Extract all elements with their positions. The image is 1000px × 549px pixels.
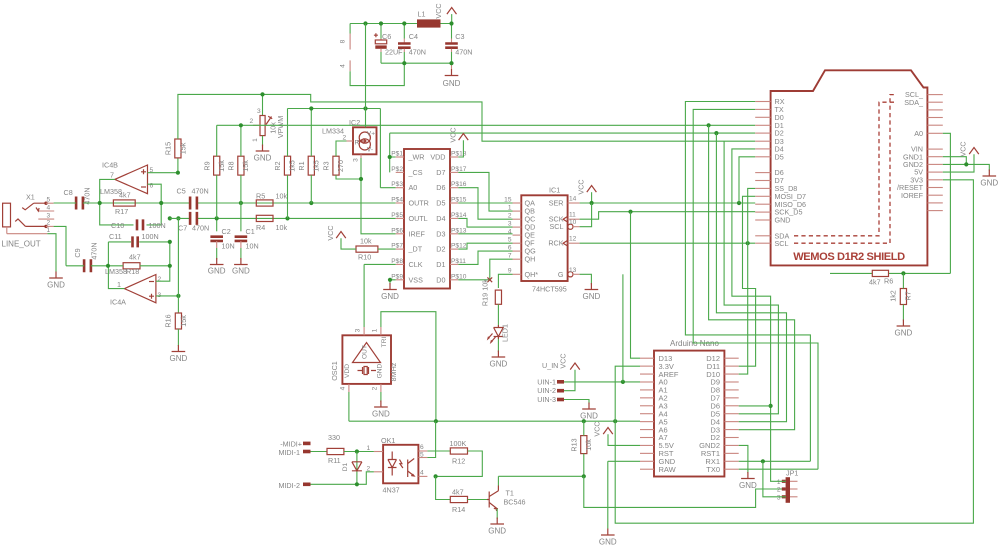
svg-text:GND: GND <box>376 363 383 378</box>
svg-text:OSC1: OSC1 <box>330 361 339 381</box>
svg-text:2: 2 <box>777 487 781 494</box>
wire RX1 to JP1 pin3 <box>763 461 786 497</box>
svg-text:IC4B: IC4B <box>102 161 118 170</box>
op-amp IC4A LM358 <box>124 275 155 303</box>
svg-text:4N37: 4N37 <box>383 486 400 495</box>
wire L-channel line <box>170 217 396 219</box>
Nano pin D7 <box>724 397 738 399</box>
wire R19 to LED1 <box>497 304 499 325</box>
wire D4 riser to JP1 pin1 <box>732 149 786 481</box>
junction x marker <box>487 277 492 282</box>
Nano pin RST1 <box>724 452 738 454</box>
wire R3 to LM334 <box>336 141 396 234</box>
wire SCK line to WEMOS <box>580 212 756 220</box>
svg-text:GND: GND <box>580 412 598 421</box>
svg-text:470N: 470N <box>192 224 209 233</box>
svg-text:100N: 100N <box>149 221 166 230</box>
wire R2 risers <box>287 109 289 219</box>
OSC1 pin 3 <box>363 327 365 335</box>
wire SS_D8 riser to Nano D10 <box>739 188 756 374</box>
WEMOS pin GND2 <box>927 163 942 165</box>
svg-text:A0: A0 <box>409 183 418 192</box>
svg-text:LINE_OUT: LINE_OUT <box>2 240 41 249</box>
svg-text:1: 1 <box>117 280 121 289</box>
wire IC4A output <box>108 266 124 289</box>
wire IC4A -in <box>156 266 170 281</box>
IC1 pin 1 QB <box>513 210 522 212</box>
svg-text:_DT: _DT <box>408 245 423 254</box>
wire 5V to VCC <box>943 154 974 172</box>
JP1 pin 1 <box>790 480 798 482</box>
svg-text:R15: R15 <box>164 142 173 155</box>
pin 4 LM358 power stub <box>349 60 351 71</box>
svg-text:470N: 470N <box>83 187 92 204</box>
WEMOS pin SDA_ <box>927 101 942 103</box>
IC2 pin P$17 D7 <box>450 171 458 173</box>
svg-text:4: 4 <box>508 229 512 236</box>
svg-text:10: 10 <box>569 219 577 226</box>
OSC1 pin 2 <box>380 384 382 392</box>
Nano pin A6 <box>640 429 654 431</box>
svg-text:10k: 10k <box>584 439 593 451</box>
svg-text:6: 6 <box>150 183 154 190</box>
svg-text:QH: QH <box>525 255 536 264</box>
IC1 pin 12 RCK <box>563 240 568 246</box>
wire D3 riser to Nano D5 <box>724 141 778 414</box>
power VCC at R10 <box>336 232 346 239</box>
svg-text:GND: GND <box>381 292 399 301</box>
wire gnd rail under caps <box>381 62 452 64</box>
svg-text:VDD: VDD <box>344 364 351 378</box>
WEMOS pin 5V <box>927 171 942 173</box>
resistor R6 4k7 <box>872 270 888 276</box>
wire UIN-2 to VCC <box>564 370 575 391</box>
svg-text:VCC: VCC <box>593 421 602 436</box>
svg-text:10k: 10k <box>276 223 288 232</box>
wire UIN-1 to Nano A0 <box>564 381 640 383</box>
wire IC2 to IC1 QA <box>458 202 512 204</box>
wire T1 emitter to ground <box>496 509 498 519</box>
junction dots power rail <box>363 21 367 25</box>
capacitor C10 100N <box>100 203 162 225</box>
svg-text:D1: D1 <box>342 462 349 471</box>
X1 pin 3 <box>38 218 54 220</box>
ground UIN-3 <box>582 403 596 410</box>
svg-text:P$6: P$6 <box>391 227 403 234</box>
svg-text:470N: 470N <box>455 47 472 56</box>
wire R15 to _WR net line <box>178 94 755 141</box>
IC1 pin 13 G <box>568 272 573 277</box>
svg-text:X1: X1 <box>26 193 35 202</box>
svg-text:TRI: TRI <box>381 337 388 348</box>
resistor R19 10k <box>495 290 501 304</box>
svg-text:D4: D4 <box>436 214 445 223</box>
svg-text:5: 5 <box>420 452 424 459</box>
inductor L1 <box>417 19 441 27</box>
wire CS D2 line <box>390 133 756 172</box>
resistor R1 1k5 <box>308 156 314 175</box>
ground Nano GND <box>601 529 615 536</box>
svg-text:15k: 15k <box>217 160 226 172</box>
capacitor C3 470N <box>451 24 453 39</box>
WEMOS pin D5 <box>755 156 770 158</box>
svg-text:R7: R7 <box>904 291 913 300</box>
svg-text:3: 3 <box>257 108 261 115</box>
svg-text:TX0: TX0 <box>706 465 720 474</box>
IC1 pin 2 QC <box>513 218 522 220</box>
svg-text:P$3: P$3 <box>391 181 403 188</box>
svg-text:BC546: BC546 <box>504 498 526 507</box>
wire divider riser to R16 <box>177 218 179 313</box>
IC2 pin P$3 A0 <box>396 187 404 189</box>
capacitor C8 470N <box>76 197 83 210</box>
svg-text:3: 3 <box>355 328 362 332</box>
resistor R17 4k7 <box>113 200 135 206</box>
IC2 pin P$2 _CS <box>396 171 404 173</box>
svg-text:470N: 470N <box>192 187 209 196</box>
wire VCC A0 line <box>288 109 396 188</box>
resistor R16 15k <box>175 313 181 329</box>
svg-text:2: 2 <box>158 276 162 283</box>
WEMOS pin SCL <box>755 242 770 244</box>
Nano pin D13 <box>640 357 654 359</box>
svg-text:4k7: 4k7 <box>129 253 141 262</box>
Nano pin A2 <box>640 397 654 399</box>
ground C1 <box>234 258 248 265</box>
svg-text:RAW: RAW <box>659 465 677 474</box>
connector X1 jack <box>3 203 11 227</box>
wire IC4B output <box>100 179 115 203</box>
capacitor C1 10N <box>240 203 242 231</box>
svg-text:P$4: P$4 <box>391 197 403 204</box>
Nano pin A4 <box>640 413 654 415</box>
svg-text:100K: 100K <box>450 439 467 448</box>
svg-text:GND: GND <box>775 216 791 225</box>
IC1 pin 6 QG <box>513 250 522 252</box>
wire SCL tied to VCC <box>580 203 592 227</box>
svg-text:VPWM: VPWM <box>276 116 285 138</box>
svg-text:QH*: QH* <box>525 270 539 279</box>
svg-text:SCL: SCL <box>550 222 564 231</box>
wire T1 collector <box>497 476 499 485</box>
svg-text:IOREF: IOREF <box>901 191 924 200</box>
wire A0 riser <box>622 274 624 382</box>
wire VSS to ground <box>390 280 396 285</box>
IC2 pin P$18 VDD <box>450 156 458 158</box>
svg-text:A0: A0 <box>914 129 923 138</box>
power VCC at Nano 5.5V <box>603 428 613 435</box>
svg-text:2: 2 <box>343 135 347 142</box>
dashed SCL internal route <box>794 95 896 244</box>
svg-text:GND: GND <box>372 410 390 419</box>
power VCC at UIN <box>570 363 580 370</box>
WEMOS pin nc <box>927 109 942 111</box>
OK1 pin 1 <box>374 451 383 453</box>
wire TX0 row <box>739 468 818 470</box>
WEMOS pin MISO_D6 <box>755 203 770 205</box>
svg-text:D5: D5 <box>775 152 784 161</box>
IC2 pin P$1 _WR <box>396 156 404 158</box>
WEMOS pin SDA <box>755 235 770 237</box>
svg-text:VCC: VCC <box>434 3 443 18</box>
ground R7 <box>897 320 911 327</box>
svg-text:470N: 470N <box>90 242 99 259</box>
wire IC4B -in <box>148 184 162 203</box>
svg-text:R16: R16 <box>164 314 173 327</box>
WEMOS pin D3 <box>755 140 770 142</box>
svg-text:4: 4 <box>340 64 347 68</box>
svg-text:D7: D7 <box>436 168 445 177</box>
svg-text:1: 1 <box>777 479 781 486</box>
svg-text:SDA_: SDA_ <box>904 98 924 107</box>
svg-text:UIN-2: UIN-2 <box>537 386 556 395</box>
WEMOS pin 3V3 <box>927 179 942 181</box>
svg-text:4k7: 4k7 <box>869 278 881 287</box>
WEMOS pin D1 <box>755 124 770 126</box>
WEMOS pin RX <box>755 101 770 103</box>
IC1 pin 5 QF <box>513 242 522 244</box>
IC2 pin P$4 OUTR <box>396 202 404 204</box>
IC2 pin P$14 D4 <box>450 217 458 219</box>
wire UIN-3 to ground <box>564 400 589 405</box>
svg-text:VCC: VCC <box>449 127 458 142</box>
IC wemos d1r2 shield outline <box>771 70 928 265</box>
IC2 pin P$16 D6 <box>450 187 458 189</box>
current source IC2 LM334 <box>353 127 377 154</box>
wire 3V3 rail <box>349 420 640 422</box>
OK1 pin 2 <box>374 471 383 473</box>
IC2 pin P$9 VSS <box>396 279 404 281</box>
wire RX1 row <box>739 460 811 462</box>
svg-text:1k2: 1k2 <box>889 290 898 302</box>
wire GND1 GND2 to ground <box>943 157 990 171</box>
capacitor C5 470N <box>190 197 197 210</box>
svg-text:VCC: VCC <box>577 179 586 194</box>
svg-text:10k: 10k <box>481 279 490 291</box>
svg-text:2: 2 <box>372 386 379 390</box>
Nano pin A3 <box>640 405 654 407</box>
Nano pin D11 <box>724 365 738 367</box>
ground IC1 <box>585 283 599 290</box>
Nano pin D8 <box>724 389 738 391</box>
Nano pin D5 <box>724 413 738 415</box>
svg-text:D0: D0 <box>436 275 445 284</box>
svg-text:OUT: OUT <box>362 345 369 359</box>
X1 pin 5 tip switch <box>22 203 46 210</box>
wire Nano GND to ground <box>608 461 640 528</box>
svg-text:GND: GND <box>490 360 508 369</box>
wire R-channel line <box>54 202 396 204</box>
wire R13 bottom to JP1 pin2 <box>584 476 786 507</box>
WEMOS pin MOSI_D7 <box>755 195 770 197</box>
svg-text:C4: C4 <box>409 32 418 41</box>
svg-text:C5: C5 <box>177 187 186 196</box>
wire A0 to R6 <box>943 133 951 273</box>
wire IC4A +in <box>156 295 179 297</box>
oscillator OSC1 8MHz box <box>342 335 391 384</box>
svg-text:V+: V+ <box>367 131 375 138</box>
svg-text:GND: GND <box>895 329 913 338</box>
svg-text:GND: GND <box>443 79 461 88</box>
junction dots R line <box>98 201 102 205</box>
svg-text:VDD: VDD <box>430 153 445 162</box>
wire VCC to 5.5V <box>608 434 640 445</box>
svg-text:1: 1 <box>367 445 371 452</box>
resistor R18 4k7 <box>123 263 140 269</box>
svg-text:1k5: 1k5 <box>288 160 297 172</box>
svg-text:OUTL: OUTL <box>409 214 428 223</box>
svg-text:GND: GND <box>254 154 272 163</box>
OK1 pin 6 <box>418 450 427 452</box>
svg-text:R: R <box>355 140 360 147</box>
svg-text:R4: R4 <box>256 223 265 232</box>
wire IC1 G to ground <box>580 274 592 284</box>
capacitor C9 470N <box>84 259 91 272</box>
svg-text:4: 4 <box>420 470 424 477</box>
power VCC at IC1 <box>587 186 597 193</box>
Nano pin RX1 <box>724 460 738 462</box>
svg-text:2: 2 <box>250 118 254 125</box>
svg-text:1: 1 <box>372 328 379 332</box>
svg-text:2: 2 <box>47 220 51 227</box>
wire WEMOS D5 to MISO line <box>739 157 755 203</box>
IC2 pin P$8 CLK <box>396 263 404 265</box>
svg-text:D5: D5 <box>436 199 445 208</box>
resistor R14 4k7 <box>450 496 467 502</box>
svg-text:470N: 470N <box>409 47 426 56</box>
Nano pin TX0 <box>724 468 738 470</box>
wire trimmer pin1 to ground <box>262 136 264 146</box>
X1 pin 4 <box>38 210 54 212</box>
resistor R12 100K <box>450 448 467 454</box>
Nano pin A0 <box>640 381 654 383</box>
pin stub LM334 pin2 <box>347 140 354 142</box>
svg-text:GND: GND <box>583 292 601 301</box>
svg-text:4: 4 <box>47 204 51 211</box>
svg-text:D3: D3 <box>436 229 445 238</box>
svg-text:3: 3 <box>353 158 360 162</box>
svg-text:_WR: _WR <box>408 153 425 162</box>
wire IC2 D2 to QG <box>458 251 512 264</box>
svg-text:L1: L1 <box>418 10 426 19</box>
wire Nano GND2 to ground <box>739 445 748 473</box>
IC2 pin P$15 D5 <box>450 202 458 204</box>
IC2 pin P$13 D3 <box>450 233 458 235</box>
wire Nano D13 to SCK line <box>631 212 641 359</box>
WEMOS pin /RESET <box>927 187 942 189</box>
wire pin4 to R14 <box>436 476 451 499</box>
wire R11 to OK1 pin1 <box>344 451 374 453</box>
junction dots feedback nodes <box>106 264 110 268</box>
wire R6 to R7 <box>902 273 904 288</box>
wire R18 line <box>108 265 170 267</box>
wire MIDI-1 to R11 <box>311 451 328 453</box>
wire IC2 D1 to QH <box>458 259 512 280</box>
ground X1 <box>49 272 63 279</box>
wire RCK SCL line to WEMOS <box>580 242 756 244</box>
svg-text:C7: C7 <box>178 224 187 233</box>
svg-text:WEMOS D1R2 SHIELD: WEMOS D1R2 SHIELD <box>793 251 905 263</box>
wire IC2 D4 to QE <box>458 233 512 235</box>
svg-text:D6: D6 <box>436 183 445 192</box>
capacitor C6 22UF <box>380 24 382 39</box>
svg-text:VSS: VSS <box>409 275 424 284</box>
IC ic2 DAC box <box>404 149 450 289</box>
WEMOS pin nc <box>927 210 942 212</box>
wire VCC to R10 to _DT <box>341 238 396 249</box>
svg-text:OUTR: OUTR <box>409 199 429 208</box>
JP1 pin 3 <box>790 496 798 498</box>
Nano pin GND2 <box>724 444 738 446</box>
svg-text:10N: 10N <box>222 242 235 251</box>
svg-text:7: 7 <box>110 171 114 180</box>
svg-text:R17: R17 <box>115 207 128 216</box>
svg-text:C10: C10 <box>111 221 124 230</box>
svg-text:_CS: _CS <box>408 168 423 177</box>
svg-text:GND: GND <box>208 267 226 276</box>
svg-text:15k: 15k <box>179 142 188 154</box>
svg-text:R9: R9 <box>203 161 212 170</box>
dashed SDA internal route <box>794 102 896 236</box>
ground T1 <box>490 518 504 525</box>
svg-text:VCC: VCC <box>559 353 568 368</box>
svg-text:U_IN: U_IN <box>542 361 558 370</box>
svg-text:T1: T1 <box>506 489 514 498</box>
svg-text:P$5: P$5 <box>391 212 403 219</box>
Nano pin A5 <box>640 421 654 423</box>
power VCC top right <box>447 8 457 15</box>
wire R13 risers <box>583 421 585 476</box>
connector JP1 <box>786 477 790 503</box>
svg-text:C8: C8 <box>64 188 73 197</box>
svg-text:LM334: LM334 <box>322 127 344 136</box>
wire R6 line <box>830 272 950 274</box>
svg-text:10k: 10k <box>360 237 372 246</box>
wire IC2 D3 to QF <box>458 243 512 249</box>
ground R16 <box>172 345 186 352</box>
wire R1 risers <box>310 109 312 204</box>
diode D1 <box>356 452 358 485</box>
IC1 pin 10 SCL <box>568 224 573 229</box>
Nano pin D10 <box>724 373 738 375</box>
X1 pin 1 <box>6 227 8 234</box>
svg-text:CLK: CLK <box>409 260 423 269</box>
svg-text:R11: R11 <box>328 456 341 465</box>
Nano pin D2 <box>724 437 738 439</box>
svg-text:4k7: 4k7 <box>452 488 464 497</box>
svg-text:9: 9 <box>508 267 512 274</box>
WEMOS pin A0 <box>927 132 942 134</box>
svg-text:R2: R2 <box>273 161 282 170</box>
wire X1 pin1 to ground <box>47 234 56 272</box>
svg-text:IC4A: IC4A <box>110 298 126 307</box>
svg-text:6: 6 <box>420 444 424 451</box>
IC1 pin 7 QH <box>513 258 522 260</box>
resistor R8 15k <box>238 156 244 175</box>
JP1 pin 2 <box>790 488 798 490</box>
svg-text:C3: C3 <box>455 32 464 41</box>
wire OSC1 VDD to rail <box>348 392 350 421</box>
IC1 pin 15 QA <box>513 202 522 204</box>
svg-text:74HCT595: 74HCT595 <box>532 285 567 294</box>
wire WEMOS RX to Nano RX1 <box>685 102 810 462</box>
ground below C3 <box>451 63 453 69</box>
capacitor C7 470N <box>190 212 197 225</box>
svg-text:VCC: VCC <box>959 141 968 156</box>
capacitor C11 100N <box>108 242 169 266</box>
svg-text:100N: 100N <box>142 232 159 241</box>
IC1 pin 11 SCK <box>563 216 568 222</box>
